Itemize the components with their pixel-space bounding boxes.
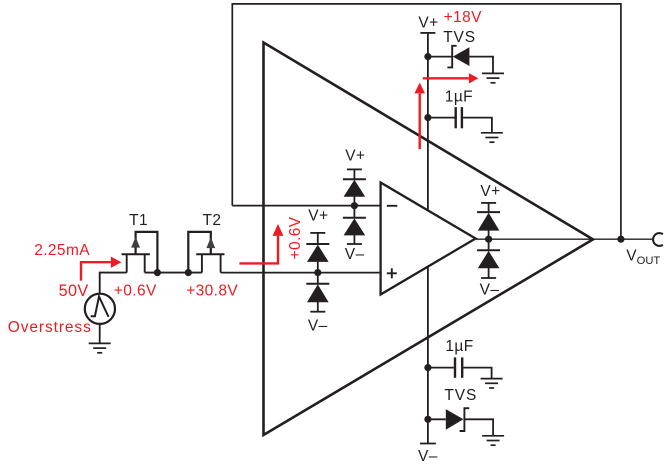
diode clamp pair at U2 output: terminal V+ <box>481 203 496 212</box>
svg-text:+0.6V: +0.6V <box>114 282 157 299</box>
wire: noninverting input from T2 to U2 <box>221 272 381 274</box>
op-amp U2 inner amplifier triangle <box>381 183 476 295</box>
svg-text:V+: V+ <box>418 15 438 32</box>
ground below source <box>89 343 111 352</box>
wire: between T1 and T2 <box>145 272 202 274</box>
op-amp U1 outer boost amplifier triangle <box>264 43 594 436</box>
svg-text:Overstress: Overstress <box>8 319 92 336</box>
svg-text:TVS: TVS <box>443 29 476 46</box>
V- supply terminal bottom <box>420 443 436 445</box>
source V1 overstress generator <box>85 294 115 344</box>
wire: V+ rail down to U2 top edge <box>427 33 429 210</box>
output terminal open circle <box>653 233 663 246</box>
svg-text:V–: V– <box>345 246 365 263</box>
transistor T2 <box>188 232 224 273</box>
node: T2 gate junction <box>185 269 192 276</box>
svg-text:2.25mA: 2.25mA <box>34 242 90 259</box>
wire: V+ rail to TVS1 <box>428 56 452 58</box>
diode D3 to V+ (noninverting input) <box>306 244 329 284</box>
node: output clamp junction <box>485 236 492 243</box>
svg-text:+0.6V: +0.6V <box>287 216 304 259</box>
diode D5 to V+ (output clamp) <box>477 212 500 250</box>
svg-text:V–: V– <box>480 282 500 299</box>
diode D6 from V- (output clamp) <box>477 250 500 278</box>
svg-text:50V: 50V <box>59 282 89 300</box>
wire: feedback loop from output to inverting input <box>232 4 621 239</box>
node: C1 junction on V+ rail <box>424 114 431 121</box>
wire: input from source to T1 <box>100 273 127 295</box>
noninverting input plus sign of U2 <box>387 268 397 278</box>
diode D2 from V- (inverting input) <box>343 218 366 244</box>
svg-text:V–: V– <box>308 317 328 334</box>
diode D1 to V+ (inverting input) <box>343 179 366 218</box>
svg-text:VOUT: VOUT <box>626 247 660 267</box>
node: inverting input clamp junction <box>351 202 358 209</box>
red current arrow elbow at T2 output <box>239 236 278 264</box>
ground at TVS2 <box>482 436 504 445</box>
svg-text:1µF: 1µF <box>445 338 473 355</box>
diode clamp pair at noninverting input: terminal V+ <box>310 233 325 244</box>
TVS1 diode top <box>447 46 493 74</box>
svg-text:+18V: +18V <box>444 9 482 26</box>
node: output feedback junction <box>617 236 624 243</box>
red current arrow to TVS1 ground <box>423 77 469 79</box>
ground at C1 <box>481 133 503 142</box>
red current arrow up on V+ rail <box>419 93 421 149</box>
svg-text:V+: V+ <box>345 148 365 165</box>
ground at C2 <box>481 379 503 388</box>
wire: inverting input <box>232 205 380 207</box>
ground at TVS1 <box>482 73 504 82</box>
V+ supply terminal top <box>420 32 435 34</box>
red current arrow elbow at input <box>81 262 111 280</box>
transistor T1 <box>122 232 158 273</box>
svg-text:T2: T2 <box>203 212 222 229</box>
svg-text:+30.8V: +30.8V <box>186 282 238 299</box>
node: C2 junction on V- rail <box>424 364 431 371</box>
TVS2 diode bottom <box>446 408 493 436</box>
capacitor C2 1uF bottom <box>428 357 492 378</box>
svg-text:T1: T1 <box>129 212 148 229</box>
svg-text:V+: V+ <box>480 183 500 200</box>
node: noninverting input clamp junction <box>314 269 321 276</box>
wire: V- rail from U2 bottom edge down <box>427 267 429 444</box>
capacitor C1 1uF top <box>428 107 492 133</box>
inverting input minus sign of U2 <box>387 205 398 207</box>
wire: U2 output to VOUT terminal (thin) <box>476 238 654 240</box>
svg-text:1µF: 1µF <box>445 89 473 106</box>
node: TVS junction on V+ rail <box>424 53 431 60</box>
node: T1 gate junction <box>154 269 161 276</box>
diode D4 from V- (noninverting input) <box>306 284 329 312</box>
svg-text:V–: V– <box>418 448 438 465</box>
node: TVS2 junction on V- rail <box>424 416 431 423</box>
svg-text:V+: V+ <box>308 207 328 224</box>
diode clamp pair at inverting input: terminal V+ <box>347 169 362 179</box>
svg-text:TVS: TVS <box>444 387 477 404</box>
wire: V- rail to TVS2 <box>428 418 446 420</box>
